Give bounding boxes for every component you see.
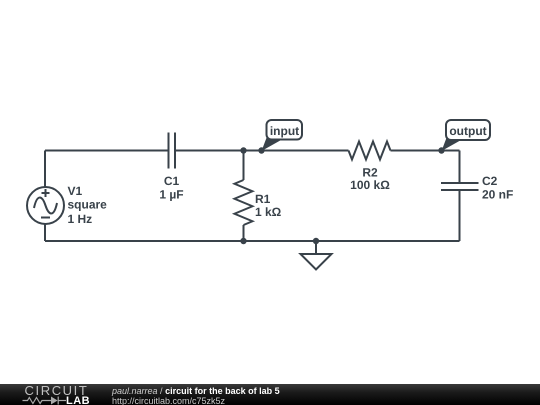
svg-text:V1: V1 (68, 184, 83, 198)
svg-text:C2: C2 (482, 174, 498, 188)
svg-text:input: input (270, 124, 299, 138)
svg-text:square: square (68, 198, 108, 212)
svg-text:1 Hz: 1 Hz (68, 212, 93, 226)
svg-text:20 nF: 20 nF (482, 188, 513, 202)
svg-text:R1: R1 (255, 192, 271, 206)
svg-text:1 kΩ: 1 kΩ (255, 205, 282, 219)
svg-text:C1: C1 (164, 174, 180, 188)
svg-text:LAB: LAB (66, 395, 90, 405)
svg-text:1 µF: 1 µF (159, 188, 183, 202)
svg-text:100 kΩ: 100 kΩ (350, 178, 390, 192)
svg-text:output: output (449, 124, 486, 138)
